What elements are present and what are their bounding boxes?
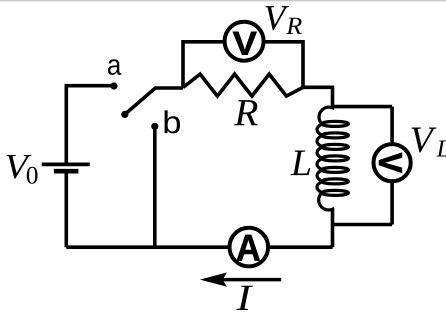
inductor L coil loop 2 xyxy=(322,133,349,138)
switch contact a dot xyxy=(110,82,117,89)
inductor L coil loop 5 xyxy=(322,167,349,172)
switch pivot dot xyxy=(121,111,128,118)
label V0 V xyxy=(6,155,31,179)
wire: VL meter branch vertical xyxy=(390,107,394,225)
battery V0 short plate xyxy=(54,169,79,174)
resistor R zigzag xyxy=(183,74,303,96)
label a xyxy=(108,59,121,75)
wire: switch b branch down to bottom rail xyxy=(153,126,157,247)
wire: resistor right node to inductor top corner xyxy=(303,87,333,106)
wire: left branch top (battery plus to switch contact a) xyxy=(66,86,114,164)
voltmeter VL circle xyxy=(374,144,411,181)
current arrow head xyxy=(200,272,227,286)
meter VR glyph V xyxy=(233,32,257,55)
current arrow I xyxy=(208,278,281,282)
inductor L coil connector 4-5 xyxy=(317,159,322,170)
wire: VL meter branch bottom xyxy=(333,223,393,227)
label VR V xyxy=(265,6,288,30)
label V0 sub 0 xyxy=(27,167,38,184)
inductor L coil loop 4 xyxy=(322,156,349,161)
wire: bottom rail xyxy=(66,245,332,249)
inductor L coil loop 1 xyxy=(322,121,349,126)
top border strip xyxy=(0,0,446,1)
inductor L coil connector 6-7 xyxy=(317,182,322,193)
label R xyxy=(234,100,258,125)
label VR sub R xyxy=(286,18,302,34)
wire: VL meter branch top xyxy=(333,105,393,109)
label VL V xyxy=(412,128,437,153)
inductor L coil connector 2-3 xyxy=(317,136,322,147)
voltmeter VR circle xyxy=(225,22,264,61)
inductor L coil loop 6 xyxy=(322,179,349,184)
label b xyxy=(165,110,181,133)
battery V0 long plate xyxy=(42,162,90,166)
inductor L coil loop 7 xyxy=(322,190,349,195)
switch blade from pivot to resistor node xyxy=(125,88,183,114)
inductor L coil exit hook xyxy=(319,193,333,210)
inductor L coil loop 3 xyxy=(322,144,349,149)
label VL sub L xyxy=(436,141,446,157)
inductor L coil connector 3-4 xyxy=(317,147,322,158)
inductor L coil connector 5-6 xyxy=(317,170,322,181)
switch contact b dot xyxy=(151,123,158,130)
wire: voltmeter VR bridge (left leg, top rail, right leg) xyxy=(183,42,303,88)
wire: left branch bottom (battery minus to bottom rail) xyxy=(65,171,69,247)
label I xyxy=(236,286,253,310)
meter A glyph xyxy=(237,235,260,261)
ammeter A circle xyxy=(230,228,269,267)
wire: inductor bottom to bottom rail xyxy=(331,208,335,247)
meter VL glyph V (rotated) xyxy=(379,153,402,173)
inductor L coil entry hook xyxy=(319,104,332,124)
label L xyxy=(290,151,310,176)
inductor L coil connector 1-2 xyxy=(317,124,322,135)
